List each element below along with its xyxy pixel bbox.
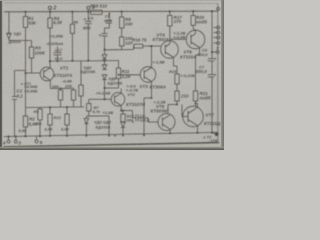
label VT1 voltages [21, 82, 37, 93]
transistor VT3 [140, 67, 156, 83]
resistor R13 [71, 88, 75, 107]
label VT5 KT503M [151, 100, 168, 114]
wire: VT3 collector to R16 node [148, 46, 152, 67]
junction dots middle [57, 60, 59, 62]
transistor VT2 [111, 93, 125, 107]
label VD5 KD103B [108, 76, 123, 86]
label VT4 KT302A [153, 33, 169, 42]
label VT4 voltages [173, 31, 185, 40]
capacitor C10 [208, 75, 214, 77]
wire: VD1 branch from top bus [8, 12, 10, 41]
capacitor C4 [85, 21, 92, 23]
label R4 4,3K [52, 16, 63, 25]
node terminal T2 [212, 133, 218, 136]
wire: VT7 leads [182, 104, 198, 133]
wire: R7 branch [89, 99, 105, 116]
resistor R9 [120, 17, 124, 28]
label R11 2,2K [121, 69, 132, 79]
scan edge shading [0, 0, 224, 150]
resistor R7 [87, 104, 91, 112]
label VD2-VD3 KD103A [94, 120, 112, 130]
resistor R20 [191, 16, 195, 26]
label R20 podb [196, 15, 207, 24]
node terminal 9 [35, 136, 38, 143]
wire: output cap column [211, 11, 213, 132]
resistor R5 [38, 109, 42, 136]
resistor R10 [120, 37, 124, 46]
label farm values [19, 84, 73, 133]
resistor R2 [23, 116, 27, 127]
label C1 0,1 [17, 89, 24, 99]
diode VD4b [102, 65, 107, 70]
wire: top supply bus [4, 10, 218, 13]
transistor VT4 [161, 41, 179, 59]
node 8 terminal [87, 6, 90, 11]
wire: VT5 base/emitter [169, 129, 171, 133]
resistor R6 [70, 24, 74, 33]
wire: diode chain feed [105, 50, 134, 65]
wire: VT6 emitter to R21 [196, 48, 200, 91]
connector pins right [214, 26, 220, 44]
label k T2 -12V [204, 135, 218, 144]
wire: lower farm rail [26, 107, 84, 114]
wire: bottom ground bus [4, 132, 218, 136]
label R7 [92, 105, 102, 114]
wire: C1 input branch [15, 71, 26, 137]
diode VD5 [102, 75, 107, 80]
border frame (schematic outline) [4, 2, 218, 4]
resistor R14 [79, 61, 83, 107]
wire: R1/R2 column [26, 12, 41, 137]
capacitor C1 [12, 97, 17, 100]
node terminal top right [217, 7, 220, 10]
resistor R1 [23, 17, 27, 28]
wire: VT1 emitter to resistor farm [50, 81, 73, 89]
label VT1 KT3107A [54, 66, 73, 84]
resistor R4 [48, 18, 52, 28]
transistor VT5 [158, 114, 175, 131]
wire: R17 column [170, 11, 187, 39]
label C10 500,0 [196, 65, 217, 78]
wire: VT4 emitter to R19 [174, 58, 178, 74]
label R12 300 [127, 113, 135, 122]
node terminal 4 [7, 137, 10, 144]
resistor R16 [134, 44, 161, 49]
transistor VT6 [186, 30, 205, 49]
diode VD4 [102, 55, 107, 60]
label VT7 KT315D [204, 113, 221, 127]
resistor R19 [175, 74, 179, 91]
transistor VT1 [40, 67, 54, 81]
resistor R18 [91, 10, 103, 14]
transistor VT7 [183, 106, 204, 127]
node terminal 3 [14, 136, 17, 143]
wire: VT3 base [119, 74, 141, 76]
label VD4 KD103B [81, 65, 96, 74]
wire: R9/R10 column [121, 12, 123, 50]
resistor R22 [168, 91, 179, 114]
label R17 270 [173, 15, 183, 24]
label C4 600 [83, 16, 94, 31]
label R2 6,8K [29, 117, 39, 127]
wire: C5 branch [105, 14, 110, 34]
label VT2 KT3107I [96, 91, 146, 108]
diode VD3 [121, 122, 125, 136]
scan grain overlay [0, 0, 224, 150]
wire: VT3 emitter down [144, 82, 152, 136]
label R10 120 [125, 36, 133, 46]
resistor R15 [65, 114, 69, 136]
node terminal 7 [212, 51, 219, 54]
label C5 10,0 [99, 13, 113, 38]
wire: node2/R4 column to VT1 collector [49, 12, 51, 68]
label C6 500,0 [198, 47, 217, 61]
diode VD2 [84, 118, 88, 135]
resistor R8 [58, 88, 62, 107]
resistor R14 [48, 114, 52, 136]
label R21 podb [200, 91, 211, 101]
capacitor C8 [101, 34, 107, 50]
node 2 terminal [48, 6, 51, 11]
resistor R3 [29, 47, 33, 58]
wire: R11 branch [105, 61, 119, 88]
resistor R21 [193, 91, 197, 106]
scan tone wash [0, 0, 224, 150]
label VT3 KT306A [140, 84, 166, 89]
label R9 240 [124, 17, 133, 27]
label R1 33K [28, 16, 37, 26]
wire: mid feedback bus [50, 60, 119, 63]
wire: VD2/VD3 rail [86, 116, 109, 136]
junction dots top bus [25, 11, 27, 13]
capacitor C7 [54, 47, 62, 61]
capacitor C6 [208, 59, 214, 61]
label R19 value [169, 69, 195, 78]
wire: R20 column to VT6 collector [193, 11, 195, 30]
wire: VT2 collector/emitter leads [121, 89, 132, 111]
label C9 100,0 [132, 114, 151, 125]
resistor R12 [121, 111, 125, 122]
capacitor C5 [106, 21, 112, 23]
resistor R11 [116, 68, 120, 79]
wire: diode chain to VT2 base [105, 80, 112, 100]
diode VD1 [7, 33, 11, 39]
label VT6 KT315A [180, 50, 196, 60]
label VD1 Д311 [8, 31, 23, 44]
wire: R3 branch [9, 41, 32, 74]
wire: VT4 collector junction [169, 39, 171, 43]
label R3 100K [35, 46, 47, 56]
label 2,45V measurement [50, 33, 63, 38]
wire: C4 branch [87, 12, 89, 61]
label 0,025mA measurement [46, 41, 63, 46]
label C7 10,0 [55, 48, 64, 62]
junction dots bottom bus [8, 136, 10, 138]
label VT3 voltages [126, 83, 138, 92]
capacitor C9 [133, 111, 159, 122]
wire: R6 branch [71, 12, 73, 61]
resistor R17 [168, 15, 172, 26]
